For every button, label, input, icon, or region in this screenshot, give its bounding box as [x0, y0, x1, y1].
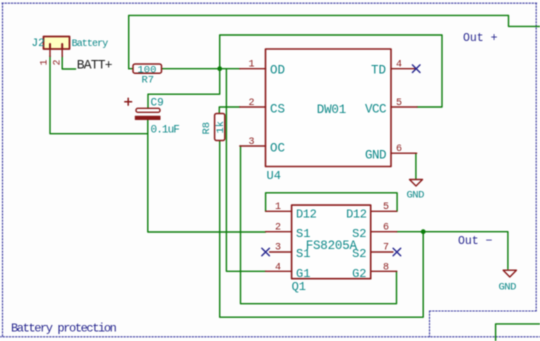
- J2 pin 1 stub: [49, 49, 51, 57]
- svg-text:GND: GND: [407, 190, 425, 202]
- pin 5 VCC stub: [391, 106, 417, 108]
- svg-text:VCC: VCC: [365, 103, 386, 117]
- J2 pin 1 mark: [49, 44, 51, 49]
- svg-text:FS8205A: FS8205A: [306, 239, 358, 253]
- wire adjacent sheet fragment: [496, 324, 540, 341]
- wire J2 pin2 to BATT+ label: [62, 56, 75, 69]
- svg-text:J2: J2: [32, 38, 45, 50]
- ground symbol Out-: [503, 270, 516, 277]
- svg-text:3: 3: [275, 243, 281, 254]
- capacitor C9 top plate: [136, 108, 160, 112]
- svg-text:2: 2: [275, 222, 281, 233]
- wire OD to G1: [226, 69, 265, 272]
- wire OC to G2: [241, 146, 397, 304]
- wire R8 bottom to Out- node: [220, 141, 424, 318]
- svg-text:3: 3: [248, 137, 254, 148]
- pin 8 G2 stub: [371, 270, 397, 272]
- capacitor C9 bottom plate: [135, 116, 161, 120]
- svg-text:6: 6: [396, 144, 402, 155]
- wire CS pin 2 to R8 top: [219, 107, 240, 114]
- svg-text:1: 1: [40, 59, 51, 65]
- pin 6 GND stub: [391, 152, 417, 154]
- svg-text:1: 1: [275, 202, 281, 213]
- pin 5 D12 stub: [371, 210, 397, 212]
- resistor R8 body: [215, 114, 225, 141]
- pin 6 S2 stub: [371, 231, 397, 233]
- wire node A down to C9 top: [148, 69, 220, 109]
- junction node Out-: [421, 229, 426, 234]
- svg-text:Out +: Out +: [463, 32, 498, 45]
- sheet border notch horizontal: [430, 310, 537, 312]
- pin 1 OD stub: [240, 68, 266, 70]
- svg-text:CS: CS: [270, 103, 285, 117]
- svg-text:1: 1: [248, 60, 254, 71]
- svg-text:GND: GND: [499, 282, 517, 294]
- wire D12 pin1 to D12 pin5: [266, 193, 398, 212]
- J2 pin 2 mark: [61, 44, 63, 49]
- svg-text:Battery: Battery: [72, 39, 109, 50]
- pin 4 G1 stub: [266, 270, 292, 272]
- svg-text:Battery protection: Battery protection: [11, 322, 117, 336]
- connector J2 body: [44, 37, 70, 50]
- op-amp U4 body DW01: [266, 49, 392, 167]
- J2 pin 2 stub: [61, 49, 63, 57]
- sheet border dotted bottom: [0, 336, 540, 338]
- pin 1 D12 stub: [266, 210, 292, 212]
- svg-text:OC: OC: [270, 142, 285, 156]
- svg-text:U4: U4: [267, 169, 281, 183]
- sheet border dotted top: [2, 2, 537, 4]
- svg-text:5: 5: [396, 98, 402, 109]
- svg-text:5: 5: [383, 202, 389, 213]
- svg-text:Q1: Q1: [292, 280, 306, 294]
- svg-text:GND: GND: [365, 149, 386, 163]
- svg-text:TD: TD: [371, 63, 386, 77]
- sheet border notch vertical: [429, 311, 431, 337]
- pin 4 TD stub: [391, 68, 416, 70]
- sheet border dotted right: [535, 3, 537, 311]
- ground symbol U4 pin6: [410, 180, 423, 187]
- wire J2 pin1 down to C9 bottom: [50, 56, 148, 134]
- svg-text:8: 8: [383, 262, 389, 273]
- wire R7 left lead: [129, 68, 133, 70]
- transistor Q1 body FS8205A: [292, 205, 371, 279]
- junction node A: [217, 66, 222, 71]
- svg-text:4: 4: [275, 262, 281, 273]
- svg-text:C9: C9: [151, 98, 164, 110]
- pin 7 S2 stub: [371, 251, 393, 253]
- svg-text:S2: S2: [352, 247, 366, 261]
- svg-text:D12: D12: [346, 207, 367, 221]
- wire C9 bottom to S1 pin 2: [148, 120, 266, 232]
- wire DW01 GND pin to ground: [415, 153, 417, 179]
- svg-text:G2: G2: [352, 267, 366, 281]
- wire S2 pin6 to Out- and GND: [397, 232, 508, 269]
- svg-text:D12: D12: [296, 207, 317, 221]
- capacitor C9 plus sign: [125, 98, 132, 105]
- svg-text:4: 4: [396, 60, 402, 71]
- resistor R7 body: [133, 64, 162, 73]
- svg-text:S2: S2: [352, 227, 366, 241]
- svg-text:S1: S1: [296, 247, 310, 261]
- no-connect X pin 7 S2: [393, 248, 401, 256]
- svg-text:R8: R8: [201, 122, 213, 135]
- pin 3 OC stub: [240, 145, 266, 147]
- wire BATT+ top rail to Out+: [129, 15, 540, 68]
- no-connect X pin 4 TD: [412, 65, 420, 73]
- sheet border dotted left: [2, 3, 4, 337]
- svg-text:G1: G1: [296, 267, 310, 281]
- svg-text:DW01: DW01: [317, 103, 346, 117]
- pin 3 S1 stub: [270, 251, 292, 253]
- pin 2 S1 stub: [266, 231, 292, 233]
- svg-text:OD: OD: [270, 63, 285, 77]
- svg-text:R7: R7: [142, 75, 155, 87]
- svg-text:7: 7: [383, 243, 389, 254]
- svg-text:1k: 1k: [215, 121, 227, 134]
- svg-text:Out −: Out −: [458, 235, 493, 248]
- svg-text:2: 2: [53, 59, 64, 65]
- svg-text:6: 6: [383, 222, 389, 233]
- wire R7 right to OD node: [162, 68, 240, 70]
- svg-text:0.1uF: 0.1uF: [151, 125, 180, 137]
- pin 2 CS stub: [240, 106, 266, 108]
- svg-text:BATT+: BATT+: [77, 58, 113, 73]
- svg-text:2: 2: [248, 98, 254, 109]
- wire node A to VCC pin 5: [220, 35, 442, 107]
- svg-text:S1: S1: [296, 227, 310, 241]
- no-connect X pin 3 S1: [262, 248, 270, 256]
